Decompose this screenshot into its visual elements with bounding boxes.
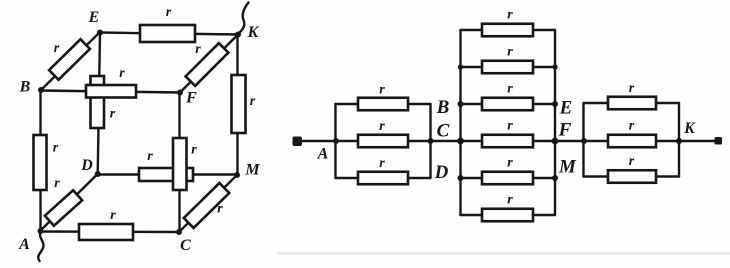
wire A-B: [39, 90, 41, 231]
svg-text:r: r: [507, 8, 513, 23]
svg-text:r: r: [507, 45, 513, 60]
svg-text:K: K: [683, 120, 696, 137]
wire F-K: [180, 35, 238, 93]
group2 rail row5: [461, 177, 556, 179]
resistor r B-F: [86, 85, 136, 98]
node M: [234, 172, 240, 178]
lead at node A: [38, 232, 43, 261]
svg-text:r: r: [110, 208, 116, 223]
wire A-D: [40, 174, 98, 231]
resistor r group2 row6: [482, 209, 533, 222]
output terminal: [715, 137, 723, 145]
input terminal: [293, 137, 303, 147]
group3 top rail: [584, 102, 680, 104]
node K: [235, 32, 241, 38]
svg-text:r: r: [195, 42, 201, 57]
svg-text:M: M: [558, 157, 577, 178]
svg-text:r: r: [54, 41, 60, 56]
resistor r group3 mid: [608, 135, 656, 148]
resistor r E-K: [140, 25, 195, 42]
junction group3 left bus: [581, 138, 587, 144]
svg-text:F: F: [185, 90, 197, 107]
wire D-E: [98, 33, 100, 175]
node F: [177, 90, 183, 96]
svg-text:r: r: [53, 141, 59, 156]
svg-text:r: r: [379, 119, 385, 134]
junction group1 right bus: [428, 138, 434, 144]
group2 rail row6: [461, 214, 556, 216]
svg-text:A: A: [317, 146, 329, 163]
svg-text:B: B: [436, 97, 450, 118]
group1 top rail: [336, 103, 431, 105]
wire C-M: [179, 175, 237, 232]
group3 right bus at node K: [678, 103, 680, 177]
node B: [38, 87, 44, 93]
wire K-M: [236, 35, 238, 176]
svg-text:r: r: [379, 156, 385, 171]
wire D-M: [98, 173, 238, 175]
svg-text:r: r: [191, 143, 197, 158]
node D junction: [458, 175, 464, 181]
svg-text:r: r: [217, 202, 223, 217]
resistor r B-E: [49, 39, 90, 79]
resistor r group2 row2: [482, 61, 533, 74]
resistor r group3 top: [608, 97, 656, 110]
resistor r D-M: [139, 168, 193, 181]
main wire A-K: [300, 140, 716, 142]
node F junction: [552, 138, 559, 145]
group2 left bus B-C-D: [459, 30, 461, 215]
svg-text:r: r: [507, 156, 513, 171]
group2 rail row1: [461, 29, 556, 31]
svg-text:E: E: [88, 9, 100, 26]
group3 left bus: [582, 103, 584, 177]
svg-text:r: r: [147, 149, 153, 164]
svg-text:B: B: [19, 79, 31, 96]
svg-text:K: K: [247, 24, 260, 41]
group1 left bus at node A: [334, 104, 336, 178]
svg-text:M: M: [244, 162, 260, 179]
svg-text:r: r: [629, 154, 635, 169]
node E junction: [552, 101, 558, 107]
wire A-C: [40, 230, 179, 233]
group2 right bus E-F-M: [554, 30, 556, 215]
resistor r C-M: [184, 183, 229, 228]
resistor r group3 bottom: [608, 170, 656, 183]
faint scan line bottom: [277, 252, 730, 255]
node C: [176, 229, 182, 235]
resistor r D-E: [91, 76, 105, 128]
wire B-F: [41, 91, 180, 93]
svg-text:D: D: [434, 162, 449, 183]
group2 rail row3: [461, 103, 556, 105]
svg-text:C: C: [180, 237, 191, 254]
group3 bottom rail: [584, 175, 680, 177]
wire C-F: [178, 93, 180, 233]
svg-text:F: F: [558, 120, 572, 141]
node A junction: [333, 138, 339, 144]
resistor r group2 row4: [482, 135, 533, 148]
svg-text:r: r: [507, 119, 513, 134]
resistor r A-C: [79, 224, 133, 240]
node E: [97, 30, 103, 36]
resistor r K-M: [232, 75, 246, 133]
resistor r F-K: [186, 43, 229, 86]
resistor r A-D: [45, 190, 82, 225]
resistor r A-B: [34, 135, 47, 190]
junction group2 row2 left: [458, 64, 463, 69]
resistor r group1 bottom: [358, 172, 408, 185]
svg-text:r: r: [119, 66, 125, 81]
svg-text:r: r: [166, 5, 172, 20]
svg-text:r: r: [54, 176, 60, 191]
resistor r group2 row5: [482, 172, 533, 185]
svg-text:r: r: [629, 119, 635, 134]
svg-text:D: D: [80, 157, 93, 174]
resistor r group2 row3: [482, 98, 533, 111]
resistor r C-F: [173, 138, 187, 190]
resistor r group2 row1: [482, 24, 533, 37]
wire B-E: [41, 32, 100, 90]
svg-text:r: r: [629, 81, 635, 96]
svg-text:r: r: [250, 94, 256, 109]
node B junction: [458, 101, 464, 107]
svg-text:C: C: [437, 121, 450, 142]
node C junction: [457, 138, 464, 145]
group2 rail row2: [461, 66, 556, 68]
group1 right bus: [429, 104, 431, 178]
svg-text:A: A: [18, 236, 30, 253]
node M junction: [552, 175, 558, 181]
svg-text:r: r: [507, 82, 513, 97]
node K junction: [676, 138, 682, 144]
node A: [38, 228, 44, 234]
svg-text:r: r: [110, 107, 116, 122]
wire E-K: [100, 33, 238, 35]
svg-text:E: E: [559, 98, 573, 119]
node D: [95, 171, 101, 177]
resistor r group1 mid: [358, 135, 408, 148]
svg-text:r: r: [507, 193, 513, 208]
junction group2 row2 right: [552, 64, 557, 69]
group1 bottom rail: [336, 177, 431, 179]
lead at node K: [238, 3, 249, 35]
resistor r group1 top: [358, 98, 408, 111]
svg-text:r: r: [379, 83, 385, 98]
